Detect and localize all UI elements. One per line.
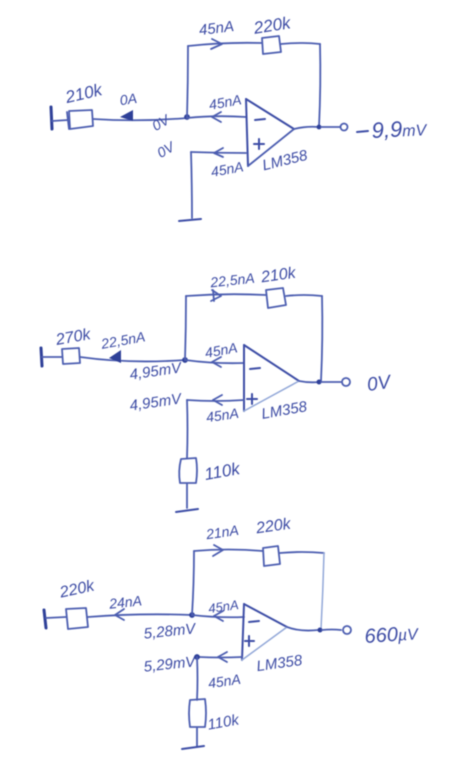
current arrow 45nA (feedback) [211,39,222,49]
output node junction (circuit 3) [318,628,323,633]
node A junction [184,114,190,120]
part label LM358 (U3) [255,652,303,675]
resistor R2 [262,36,281,54]
wire J2 to R3 [42,356,62,358]
wire node A up to feedback [187,46,188,118]
current label 45nA (noninverting, circuit 2) [205,405,240,425]
value label 270k [54,326,93,349]
output label 660uV [364,622,420,648]
wire output node to terminal [321,126,340,128]
wire noninverting input (circuit 2) [187,400,244,401]
output node junction [317,125,322,130]
input terminal J3 [44,610,46,628]
op-amp U1 [246,99,294,166]
current arrow 21nA (feedback) [213,545,223,556]
op-amp U3 [242,604,287,660]
current label 45nA (inverting, circuit 2) [204,339,239,360]
resistor R6 [66,608,88,629]
output terminal circle (circuit 3) [343,626,351,634]
wire output node to terminal (circuit 2) [321,381,341,383]
current arrow 45nA (noninverting, circuit 2) [213,395,222,405]
value label 210k [63,80,106,107]
input terminal J1 [51,107,52,129]
wire op-amp output to node [294,127,319,129]
svg-text:0A: 0A [119,90,138,108]
value label 220k (R7) [254,516,293,538]
ground (circuit 2) [176,509,198,512]
current label 22,5nA (feedback) [209,270,256,291]
current label 45nA (inverting) [208,91,243,112]
current arrow 45nA (inverting, circuit 3) [214,611,223,621]
feedback wire right segment [281,43,320,44]
wire noninverting input [191,152,246,153]
current label 21nA [204,522,240,543]
wire R1 to node A [93,118,187,120]
wire R3 to node B [80,357,185,361]
wire feedback down to output node (circuit 2) [321,296,322,381]
current arrow 24nA [115,609,124,620]
wire feedback down to output node (circuit 3) [321,553,324,629]
resistor R8 [189,699,206,727]
ground (circuit 3) [182,746,204,749]
value label 220k [251,13,293,38]
wire R5 to ground [186,484,188,508]
output node junction (circuit 2) [317,380,322,385]
wire noninverting down to R5 [186,400,189,458]
current arrow 0A [120,110,133,121]
current arrow 45nA (inverting, circuit 2) [212,357,221,367]
resistor R4 [266,288,286,308]
current label 24nA [107,592,142,611]
current arrow 45nA (noninverting) [214,148,223,157]
output label 0V [366,372,394,396]
current label 45nA (noninverting) [210,158,245,179]
wire op-amp output to node (circuit 2) [299,381,319,382]
wire noninverting down to ground [191,152,192,218]
current label 45nA [198,18,235,39]
node C junction [189,612,195,618]
resistor R3 [62,348,80,364]
op-amp U2 [244,345,299,411]
voltage label 5,28mV (inverting net) [143,620,198,643]
part label LM358 [261,147,310,175]
resistor R5 [179,458,197,483]
value label 210k [259,265,298,287]
part label LM358 (U2) [260,398,309,423]
feedback wire right segment (circuit 2) [286,295,322,296]
current label 45nA (noninverting, circuit 3) [207,671,242,691]
feedback wire left segment (circuit 2) [186,294,266,296]
value label 110k [203,459,243,484]
resistor R1 [67,110,93,129]
value label 110k (R8) [206,711,241,733]
wire R6 to node C [88,614,192,617]
value label 220k [57,577,96,601]
wire node D down to R8 [196,657,199,700]
wire op-amp output to node (circuit 3) [287,627,318,631]
voltage label 5,29mV (noninverting net) [143,653,198,676]
output terminal circle (circuit 2) [342,378,350,386]
feedback wire left segment (circuit 3) [194,550,263,552]
wire J1 to R1 [52,120,68,121]
node B junction [182,357,188,363]
current label 22,5nA [99,328,146,352]
wire node B to inverting input (circuit 2) [185,360,244,363]
wire output node to terminal (circuit 3) [322,629,341,632]
voltage label 0V (input net) [149,111,173,134]
current arrow 45nA (inverting input) [212,112,221,122]
feedback wire right segment (circuit 3) [280,552,324,553]
current arrow 22,5nA [109,350,121,363]
current arrow 22,5nA (feedback) [211,290,221,301]
wire noninverting input (circuit 3) [199,656,242,659]
voltage label 0V (noninverting net) [154,138,178,161]
current arrow 45nA (noninverting, circuit 3) [218,652,227,662]
resistor R7 [263,546,280,566]
input terminal J2 [41,348,42,366]
current label 0A [119,90,138,108]
output terminal circle [341,124,348,131]
ground (circuit 1) [179,219,201,221]
wire R8 to ground [196,728,198,746]
wire feedback down to output node [319,44,320,127]
current label 45nA (inverting, circuit 3) [207,597,239,616]
wire node C up to feedback [192,551,194,615]
wire J3 to R6 [46,617,66,618]
node D junction (noninverting) [194,654,200,660]
wire node C to inverting input (circuit 3) [192,615,244,617]
voltage label 4,95mV (inverting net) [129,359,185,383]
output label -9,9mV [357,115,428,143]
voltage label 4,95mV (noninverting net) [129,390,185,414]
feedback wire left segment [188,43,262,46]
wire node B up to feedback [185,296,186,360]
wire node A to inverting input [187,116,246,118]
